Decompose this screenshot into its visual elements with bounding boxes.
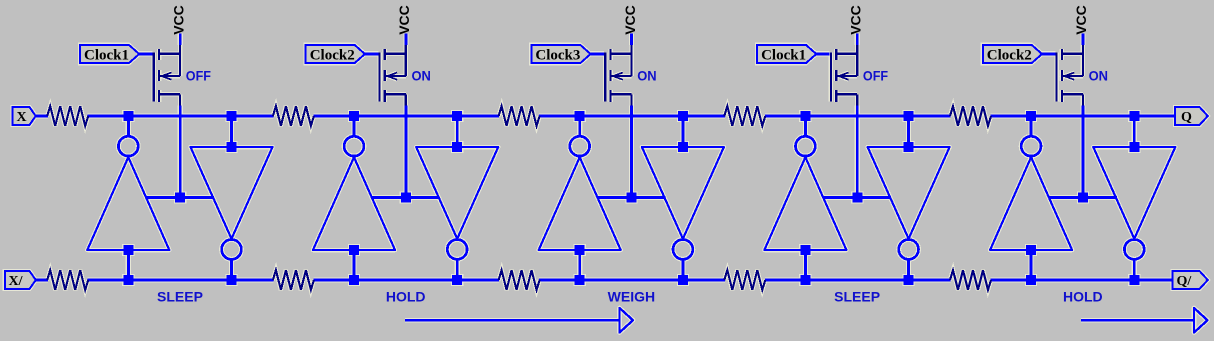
clock input tag Clock3 (stage 3) bbox=[531, 45, 590, 64]
wire top rail X-to-Q segment 4 bbox=[539, 115, 725, 118]
inverter U4b (points down, output bubble to bottom rail) bbox=[868, 147, 950, 259]
clock input tag Clock2 (stage 2) bbox=[306, 45, 365, 64]
wire U5a output bubble to top rail bbox=[1030, 117, 1033, 137]
wire bottom rail X/-to-Q/ segment 2 bbox=[88, 279, 274, 282]
wire latch supply rail bbox=[823, 196, 891, 199]
inverter U2a (points up, output bubble to top rail) bbox=[313, 136, 395, 250]
junction bottom rail / U5b output bbox=[1129, 275, 1139, 285]
wire U1a input to bottom rail bbox=[127, 250, 130, 281]
svg-text:OFF: OFF bbox=[186, 68, 212, 84]
wire VCC to drain of M2 bbox=[404, 34, 407, 46]
svg-text:OFF: OFF bbox=[863, 68, 889, 84]
arrow phase-progress (HOLD to right edge) bbox=[1081, 308, 1208, 333]
wire bottom rail X/-to-Q/ segment 5 bbox=[765, 279, 951, 282]
junction top rail / U3a output bbox=[575, 111, 585, 121]
svg-text:Clock2: Clock2 bbox=[987, 48, 1032, 64]
junction top rail / U3b input bbox=[678, 111, 688, 121]
resistor R2 (bottom rail) bbox=[47, 270, 88, 290]
wire bottom rail X/-to-Q/ segment 1 bbox=[36, 279, 48, 282]
junction top rail / U5b input bbox=[1129, 111, 1139, 121]
inverter U1b (points down, output bubble to bottom rail) bbox=[191, 147, 273, 259]
wire U2a output bubble to top rail bbox=[353, 117, 356, 137]
svg-text:VCC: VCC bbox=[170, 5, 186, 35]
wire source of M5 to latch supply node bbox=[1082, 106, 1085, 198]
wire Clock2 tag to gate of M5 bbox=[1041, 52, 1056, 55]
inverter U3b (points down, output bubble to bottom rail) bbox=[642, 147, 724, 259]
wire source of M1 to latch supply node bbox=[179, 106, 182, 198]
wire top rail X-to-Q segment 2 bbox=[88, 115, 274, 118]
wire U4a input to bottom rail bbox=[804, 250, 807, 281]
junction top rail / U1b input bbox=[227, 111, 237, 121]
inverter U5b (points down, output bubble to bottom rail) bbox=[1093, 147, 1175, 259]
wire Clock2 tag to gate of M2 bbox=[364, 52, 379, 55]
wire VCC to drain of M4 bbox=[856, 34, 859, 46]
svg-text:VCC: VCC bbox=[396, 5, 412, 35]
wire U4a output bubble to top rail bbox=[804, 117, 807, 137]
transistor M2 (pass NMOS, ON) bbox=[380, 44, 406, 106]
wire VCC to drain of M5 bbox=[1082, 34, 1085, 46]
wire latch supply rail bbox=[597, 196, 665, 199]
wire VCC to drain of M1 bbox=[179, 34, 182, 46]
resistor R3 (top rail) bbox=[273, 106, 314, 126]
wire U5a input to bottom rail bbox=[1030, 250, 1033, 281]
transistor M5 (pass NMOS, ON) bbox=[1057, 44, 1083, 106]
wire top rail to U4b input bbox=[907, 117, 910, 147]
wire source of M2 to latch supply node bbox=[404, 106, 407, 198]
wire top rail X-to-Q segment 3 bbox=[313, 115, 499, 118]
wire latch supply rail bbox=[146, 196, 214, 199]
junction bottom rail / U3a input bbox=[575, 275, 585, 285]
resistor R7 (top rail) bbox=[724, 106, 765, 126]
svg-text:Q: Q bbox=[1181, 110, 1192, 125]
svg-text:X: X bbox=[17, 110, 27, 125]
wire bottom rail X/-to-Q/ segment 6 bbox=[991, 279, 1174, 282]
svg-text:Q/: Q/ bbox=[1177, 274, 1193, 289]
inverter U3a (points up, output bubble to top rail) bbox=[539, 136, 621, 250]
port tag Q (output, top-right) bbox=[1175, 107, 1208, 125]
svg-text:HOLD: HOLD bbox=[1063, 289, 1103, 305]
resistor R8 (bottom rail) bbox=[724, 270, 765, 290]
transistor M3 (pass NMOS, ON) bbox=[605, 44, 631, 106]
resistor R5 (top rail) bbox=[499, 106, 540, 126]
resistor R6 (bottom rail) bbox=[499, 270, 540, 290]
wire top rail to U3b input bbox=[681, 117, 684, 147]
junction latch supply node bbox=[627, 193, 637, 203]
junction bottom rail / U3b output bbox=[678, 275, 688, 285]
wire Clock1 tag to gate of M1 bbox=[138, 52, 153, 55]
arrow phase-progress (HOLD to WEIGH) bbox=[405, 308, 633, 333]
svg-text:Clock2: Clock2 bbox=[310, 48, 355, 64]
svg-text:Clock1: Clock1 bbox=[761, 48, 806, 64]
inverter U5a (points up, output bubble to top rail) bbox=[990, 136, 1072, 250]
resistor R10 (bottom rail) bbox=[950, 270, 991, 290]
svg-text:SLEEP: SLEEP bbox=[157, 289, 203, 305]
port tag X/ (input, bottom-left) bbox=[5, 271, 36, 289]
wire U5b output bubble to bottom rail bbox=[1133, 260, 1136, 282]
stage 4 latch cell (Clock1, OFF, SLEEP) bbox=[724, 5, 949, 304]
junction U2a input at triangle base bbox=[349, 245, 359, 255]
junction latch supply node bbox=[1078, 193, 1088, 203]
wire source of M3 to latch supply node bbox=[630, 106, 633, 198]
svg-text:Clock3: Clock3 bbox=[535, 48, 580, 64]
stage 3 latch cell (Clock3, ON, WEIGH) bbox=[499, 5, 724, 304]
junction U3a input at triangle base bbox=[575, 245, 585, 255]
svg-text:VCC: VCC bbox=[1073, 5, 1089, 35]
junction bottom rail / U5a input bbox=[1026, 275, 1036, 285]
port tag X (input, top-left) bbox=[13, 107, 36, 125]
junction bottom rail / U4a input bbox=[800, 275, 810, 285]
svg-text:VCC: VCC bbox=[848, 5, 864, 35]
svg-text:ON: ON bbox=[637, 68, 656, 84]
wire U3a output bubble to top rail bbox=[578, 117, 581, 137]
clock input tag Clock1 (stage 1) bbox=[80, 45, 139, 64]
junction bottom rail / U1b output bbox=[227, 275, 237, 285]
svg-text:ON: ON bbox=[1089, 68, 1108, 84]
junction top rail / U4b input bbox=[904, 111, 914, 121]
svg-text:ON: ON bbox=[412, 68, 431, 84]
svg-text:HOLD: HOLD bbox=[386, 289, 426, 305]
junction U3b input at triangle base bbox=[678, 142, 688, 152]
junction bottom rail / U4b output bbox=[904, 275, 914, 285]
junction top rail / U2a output bbox=[349, 111, 359, 121]
wire bottom rail X/-to-Q/ segment 3 bbox=[313, 279, 499, 282]
junction U5a input at triangle base bbox=[1026, 245, 1036, 255]
wire top rail X-to-Q segment 5 bbox=[765, 115, 951, 118]
stage 5 latch cell (Clock2, ON, HOLD) bbox=[950, 5, 1175, 304]
stage 1 latch cell (Clock1, OFF, SLEEP) bbox=[47, 5, 272, 304]
wire bottom rail X/-to-Q/ segment 4 bbox=[539, 279, 725, 282]
wire top rail to U5b input bbox=[1133, 117, 1136, 147]
junction top rail / U1a output bbox=[123, 111, 133, 121]
junction U4a input at triangle base bbox=[800, 245, 810, 255]
wire Clock3 tag to gate of M3 bbox=[589, 52, 604, 55]
svg-text:X/: X/ bbox=[9, 274, 24, 289]
clock input tag Clock1 (stage 4) bbox=[757, 45, 816, 64]
clock input tag Clock2 (stage 5) bbox=[983, 45, 1042, 64]
wire U3a input to bottom rail bbox=[578, 250, 581, 281]
wire U4b output bubble to bottom rail bbox=[907, 260, 910, 282]
resistor R9 (top rail) bbox=[950, 106, 991, 126]
wire U2a input to bottom rail bbox=[353, 250, 356, 281]
wire latch supply rail bbox=[372, 196, 440, 199]
wire latch supply rail bbox=[1049, 196, 1117, 199]
wire Clock1 tag to gate of M4 bbox=[815, 52, 830, 55]
transistor M1 (pass NMOS, OFF) bbox=[154, 44, 180, 106]
junction U5b input at triangle base bbox=[1129, 142, 1139, 152]
junction bottom rail / U2a input bbox=[349, 275, 359, 285]
wire VCC to drain of M3 bbox=[630, 34, 633, 46]
resistor R4 (bottom rail) bbox=[273, 270, 314, 290]
svg-text:WEIGH: WEIGH bbox=[608, 289, 655, 305]
junction latch supply node bbox=[852, 193, 862, 203]
junction U2b input at triangle base bbox=[452, 142, 462, 152]
junction latch supply node bbox=[401, 193, 411, 203]
junction top rail / U2b input bbox=[452, 111, 462, 121]
svg-text:SLEEP: SLEEP bbox=[834, 289, 880, 305]
inverter U1a (points up, output bubble to top rail) bbox=[87, 136, 169, 250]
junction U1a input at triangle base bbox=[123, 245, 133, 255]
junction top rail / U4a output bbox=[800, 111, 810, 121]
junction latch supply node bbox=[175, 193, 185, 203]
inverter U2b (points down, output bubble to bottom rail) bbox=[416, 147, 498, 259]
wire top rail X-to-Q segment 1 bbox=[36, 115, 48, 118]
transistor M4 (pass NMOS, OFF) bbox=[831, 44, 857, 106]
wire U1b output bubble to bottom rail bbox=[230, 260, 233, 282]
resistor R1 (top rail) bbox=[47, 106, 88, 126]
wire top rail to U1b input bbox=[230, 117, 233, 147]
wire U3b output bubble to bottom rail bbox=[681, 260, 684, 282]
inverter U4a (points up, output bubble to top rail) bbox=[764, 136, 846, 250]
junction top rail / U5a output bbox=[1026, 111, 1036, 121]
wire source of M4 to latch supply node bbox=[856, 106, 859, 198]
junction U1b input at triangle base bbox=[227, 142, 237, 152]
svg-text:Clock1: Clock1 bbox=[84, 48, 129, 64]
junction bottom rail / U1a input bbox=[123, 275, 133, 285]
wire U2b output bubble to bottom rail bbox=[456, 260, 459, 282]
wire top rail to U2b input bbox=[456, 117, 459, 147]
port tag Q/ (output, bottom-right) bbox=[1173, 271, 1208, 289]
wire U1a output bubble to top rail bbox=[127, 117, 130, 137]
junction U4b input at triangle base bbox=[904, 142, 914, 152]
junction bottom rail / U2b output bbox=[452, 275, 462, 285]
stage 2 latch cell (Clock2, ON, HOLD) bbox=[273, 5, 498, 304]
wire top rail X-to-Q segment 6 bbox=[991, 115, 1176, 118]
svg-text:VCC: VCC bbox=[622, 5, 638, 35]
